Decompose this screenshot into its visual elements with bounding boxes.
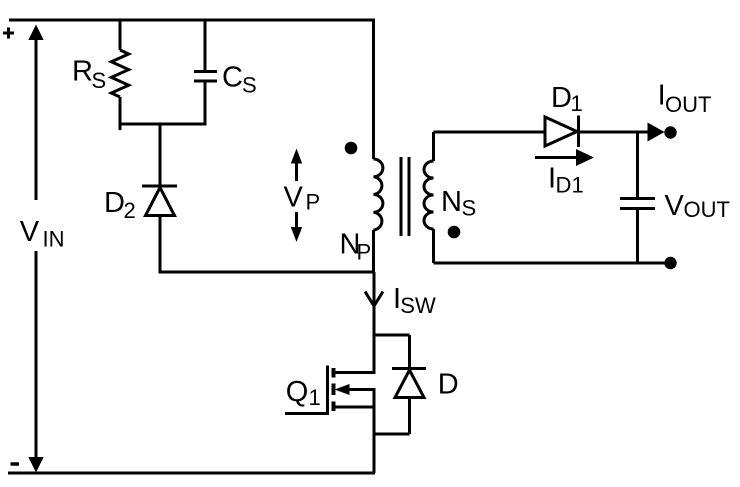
source lead: [334, 406, 376, 409]
label VIN: [20, 216, 65, 252]
diode D1 (pointing right): [545, 117, 577, 146]
primary dot: [345, 142, 358, 155]
annotation ID1 arrow: [535, 156, 578, 159]
wire: bottom negative rail: [8, 472, 375, 475]
VIN arrowhead up: [28, 25, 43, 41]
wire: source to bottom rail: [373, 390, 376, 474]
secondary dot: [448, 226, 461, 239]
capacitor COUT: [636, 132, 639, 198]
svg-text:S: S: [242, 73, 257, 98]
output terminal dot bottom: [664, 257, 676, 269]
svg-text:Q: Q: [286, 376, 309, 408]
svg-text:S: S: [462, 196, 477, 221]
svg-text:SW: SW: [400, 293, 436, 318]
label NP: [340, 229, 372, 265]
label VP: [284, 182, 321, 215]
annotation ISW arrow chevron: [365, 292, 383, 307]
svg-text:OUT: OUT: [684, 197, 730, 222]
svg-text:N: N: [441, 186, 462, 218]
VIN arrowhead down: [28, 457, 43, 473]
resistor RS: [119, 20, 122, 50]
wire: D1 cathode to output node: [579, 131, 650, 134]
svg-text:2: 2: [124, 198, 136, 223]
svg-text:P: P: [306, 190, 321, 215]
wire: D2 anode to switch node: [159, 271, 375, 274]
svg-text:OUT: OUT: [665, 92, 711, 117]
svg-text:D: D: [556, 173, 572, 198]
svg-text:P: P: [357, 240, 372, 265]
svg-text:D: D: [438, 369, 459, 401]
wire: top positive rail: [9, 19, 375, 22]
transformer core: [400, 157, 403, 236]
label D2: [104, 187, 136, 223]
label ID1: [548, 163, 584, 198]
label NS: [441, 186, 476, 221]
label CS: [222, 62, 257, 98]
body lead with arrow: [347, 388, 376, 391]
body diode D branch: [374, 334, 410, 337]
label RS: [72, 56, 106, 94]
label VOUT: [665, 190, 730, 222]
body diode triangle: [395, 370, 424, 398]
wire: secondary bottom to output return: [434, 262, 669, 265]
drain lead: [334, 371, 376, 374]
svg-text:V: V: [20, 216, 40, 248]
wire: VIN arrow line (two segments with gap for label): [35, 39, 38, 200]
svg-text:S: S: [92, 68, 107, 93]
node +: plus sign top-left: [3, 28, 14, 39]
node -: minus sign bottom-left: [11, 462, 20, 466]
body diode bar: [392, 367, 426, 370]
svg-text:C: C: [222, 62, 243, 94]
label D1: [551, 82, 583, 116]
transformer secondary winding NS: [432, 132, 435, 161]
svg-text:IN: IN: [43, 227, 65, 252]
channel segment source: [332, 402, 336, 412]
svg-text:1: 1: [309, 385, 321, 410]
capacitor CS: [204, 20, 207, 71]
svg-text:V: V: [284, 182, 304, 214]
label Q1: [286, 376, 321, 410]
output terminal dot top: [664, 126, 676, 138]
IOUT output arrowhead: [648, 123, 665, 142]
svg-text:R: R: [72, 56, 93, 88]
wire: snubber node joining RS and CS bottoms: [119, 123, 207, 126]
svg-text:D: D: [551, 82, 572, 114]
channel segment drain: [332, 368, 336, 378]
gate bar: [326, 366, 329, 416]
svg-text:1: 1: [571, 91, 583, 116]
svg-text:V: V: [665, 190, 685, 222]
annotation VP double arrow: [295, 162, 298, 181]
svg-text:D: D: [104, 187, 125, 219]
svg-text:1: 1: [572, 173, 584, 198]
label IOUT: [658, 80, 712, 118]
transformer primary winding NP: [372, 20, 375, 159]
gate lead: [285, 412, 328, 415]
diode D2 (pointing up): [159, 124, 162, 186]
label ISW: [393, 283, 436, 318]
wire: secondary top to D1: [434, 131, 546, 134]
channel segment body: [332, 384, 336, 396]
wire: switch node vertical (drain): [373, 272, 376, 373]
